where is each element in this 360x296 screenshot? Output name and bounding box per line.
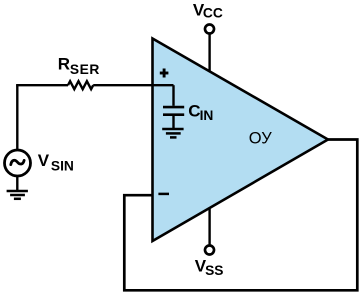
ground (capacitor) <box>162 129 183 137</box>
resistor R1 zigzag <box>68 81 93 89</box>
wire: + input horizontal left segment <box>16 84 68 86</box>
svg-text:CC: CC <box>203 6 223 21</box>
wire: feedback loop output to - input <box>124 140 357 291</box>
wire: VCC terminal down to op-amp top edge <box>208 34 210 72</box>
plus sign at + input <box>160 69 169 78</box>
source V1 circle (sine source) <box>5 150 31 176</box>
wire: capacitor bottom plate to ground <box>172 115 174 129</box>
svg-text:ОУ: ОУ <box>249 130 272 148</box>
svg-text:V: V <box>38 151 50 170</box>
ground (source) <box>7 191 28 199</box>
wire: source to ground <box>16 176 18 191</box>
svg-text:SS: SS <box>205 263 223 278</box>
wire: + input horizontal right segment into op-amp <box>93 84 173 86</box>
op-amp U1 (ОУ) triangle body <box>153 39 329 242</box>
wire: op-amp bottom edge down to VSS terminal <box>208 208 210 246</box>
capacitor C1 plates <box>163 107 184 115</box>
svg-text:IN: IN <box>200 108 214 123</box>
svg-text:SIN: SIN <box>51 158 74 173</box>
wire: source up to + input line <box>16 85 18 150</box>
sine tilde inside source <box>11 160 24 164</box>
svg-text:SER: SER <box>70 62 100 77</box>
minus sign at - input <box>158 193 169 196</box>
svg-text:R: R <box>58 55 70 74</box>
terminal VSS circle <box>205 246 214 255</box>
terminal VCC circle <box>205 25 214 34</box>
capacitor C1 stem from + wire to top plate <box>172 85 174 106</box>
